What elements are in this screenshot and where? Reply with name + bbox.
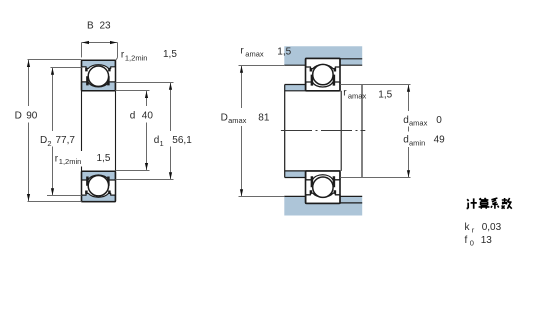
heading stroke art: 数 bbox=[502, 198, 512, 209]
centerline axis bbox=[281, 130, 365, 132]
right bearing lower section: outer ring (white, mirrored) bbox=[306, 193, 340, 203]
ball upper bbox=[88, 66, 108, 86]
svg-text:0: 0 bbox=[470, 238, 474, 247]
svg-text:amax: amax bbox=[245, 49, 264, 58]
svg-text:1,5: 1,5 bbox=[277, 47, 291, 58]
right lower shoulder shadow marks bbox=[311, 176, 335, 194]
dimension d: line (broken by text) bbox=[146, 91, 148, 170]
svg-text:amax: amax bbox=[228, 116, 247, 125]
dimension d1: arrows bbox=[169, 83, 172, 180]
heading stroke art: 算 bbox=[479, 198, 490, 209]
outer ring upper (blue) bbox=[82, 60, 116, 68]
svg-text:1,2min: 1,2min bbox=[59, 157, 82, 166]
dimension D2: arrows bbox=[51, 68, 54, 195]
svg-text:1,5: 1,5 bbox=[163, 49, 177, 60]
svg-text:90: 90 bbox=[26, 111, 38, 122]
housing shoulder lines bbox=[284, 65, 362, 196]
svg-text:amax: amax bbox=[409, 119, 428, 128]
svg-text:1,5: 1,5 bbox=[97, 153, 111, 164]
lower shoulder shadow marks bbox=[87, 76, 108, 85]
shaft bore lines bbox=[285, 91, 341, 171]
svg-text:1: 1 bbox=[160, 139, 164, 148]
svg-text:1,5: 1,5 bbox=[378, 89, 392, 100]
shaft shoulder top edges bbox=[285, 85, 306, 178]
shaft shoulder top (blue) bbox=[285, 85, 306, 91]
dimension Da: extension lines bbox=[239, 66, 285, 197]
leader r top right bbox=[116, 58, 118, 61]
bore line right bbox=[115, 91, 117, 171]
dimension B: extension lines bbox=[82, 43, 118, 58]
upper shoulder shadow marks bbox=[86, 68, 109, 72]
svg-text:49: 49 bbox=[434, 135, 446, 146]
upper section outline box bbox=[82, 60, 116, 90]
dimension D: extension lines bbox=[28, 60, 82, 202]
svg-text:77,7: 77,7 bbox=[56, 135, 76, 146]
dimension da: arrows bbox=[407, 85, 410, 177]
housing bore lines right of bearing bbox=[340, 59, 362, 203]
dimension d1: line (broken by text) bbox=[170, 83, 172, 180]
svg-text:D: D bbox=[15, 111, 22, 122]
right ball upper bbox=[313, 64, 333, 84]
svg-text:amax: amax bbox=[348, 91, 367, 100]
dimension D: line (broken by text) bbox=[28, 60, 30, 201]
ball lower bbox=[88, 176, 108, 196]
svg-text:f: f bbox=[465, 235, 468, 246]
svg-text:1,2min: 1,2min bbox=[125, 53, 148, 62]
dimension D2: extension lines bbox=[47, 68, 82, 196]
right bearing upper section: inner ring (white) bbox=[306, 82, 340, 91]
svg-text:D: D bbox=[40, 135, 47, 146]
dimension d1: extension lines bbox=[116, 83, 174, 180]
right bearing lower section: inner ring (white, mirrored) bbox=[306, 171, 340, 180]
right upper section outline box bbox=[306, 58, 341, 90]
right lower section outline box bbox=[306, 171, 341, 203]
dimension B: line bbox=[82, 42, 118, 44]
svg-text:amin: amin bbox=[409, 138, 425, 147]
heading (Chinese) stroke art: 计 bbox=[467, 198, 477, 208]
svg-text:0: 0 bbox=[436, 115, 442, 126]
inner ring lower (blue, mirrored) bbox=[82, 171, 116, 180]
dimension Da: line (broken by text) bbox=[241, 66, 243, 196]
lower section shoulder shadow marks bbox=[86, 177, 109, 195]
svg-text:13: 13 bbox=[481, 235, 493, 246]
housing band bottom (blue) bbox=[284, 196, 362, 215]
right ball lower bbox=[313, 177, 333, 197]
outer ring lower (blue, mirrored) bbox=[82, 193, 116, 201]
right bearing upper section: outer ring (white) bbox=[306, 58, 340, 68]
inner ring upper (blue) bbox=[82, 82, 116, 91]
dimension D: arrows bbox=[27, 60, 30, 201]
dimension d: extension lines bbox=[116, 91, 150, 171]
shaft shoulder face vertical bbox=[284, 85, 286, 178]
heading stroke art: 系 bbox=[491, 198, 499, 209]
svg-text:40: 40 bbox=[142, 111, 154, 122]
svg-text:D: D bbox=[221, 112, 228, 123]
lower section outline box bbox=[82, 171, 116, 201]
svg-text:B: B bbox=[87, 20, 94, 31]
dimension Da: arrows bbox=[240, 66, 243, 196]
svg-text:0,03: 0,03 bbox=[482, 222, 502, 233]
inner step vertical bbox=[340, 91, 342, 171]
right upper shoulder shadow marks bbox=[311, 68, 335, 86]
svg-text:d: d bbox=[130, 111, 136, 122]
dimension da: line (broken by texts) bbox=[408, 85, 410, 177]
housing band top (blue) bbox=[284, 46, 362, 65]
bore line left (broken by r text) bbox=[81, 91, 83, 171]
shaft right face vertical bbox=[361, 85, 363, 178]
svg-text:2: 2 bbox=[47, 139, 51, 148]
shaft shoulder bottom (blue) bbox=[285, 171, 306, 178]
dimension B: arrows bbox=[82, 41, 117, 44]
svg-text:81: 81 bbox=[258, 112, 270, 123]
svg-text:56,1: 56,1 bbox=[172, 135, 192, 146]
dimension d: arrows bbox=[145, 91, 148, 170]
dimension da: extension lines bbox=[340, 85, 410, 178]
dimension D2: line (broken by text) bbox=[52, 68, 54, 195]
svg-text:23: 23 bbox=[100, 20, 112, 31]
